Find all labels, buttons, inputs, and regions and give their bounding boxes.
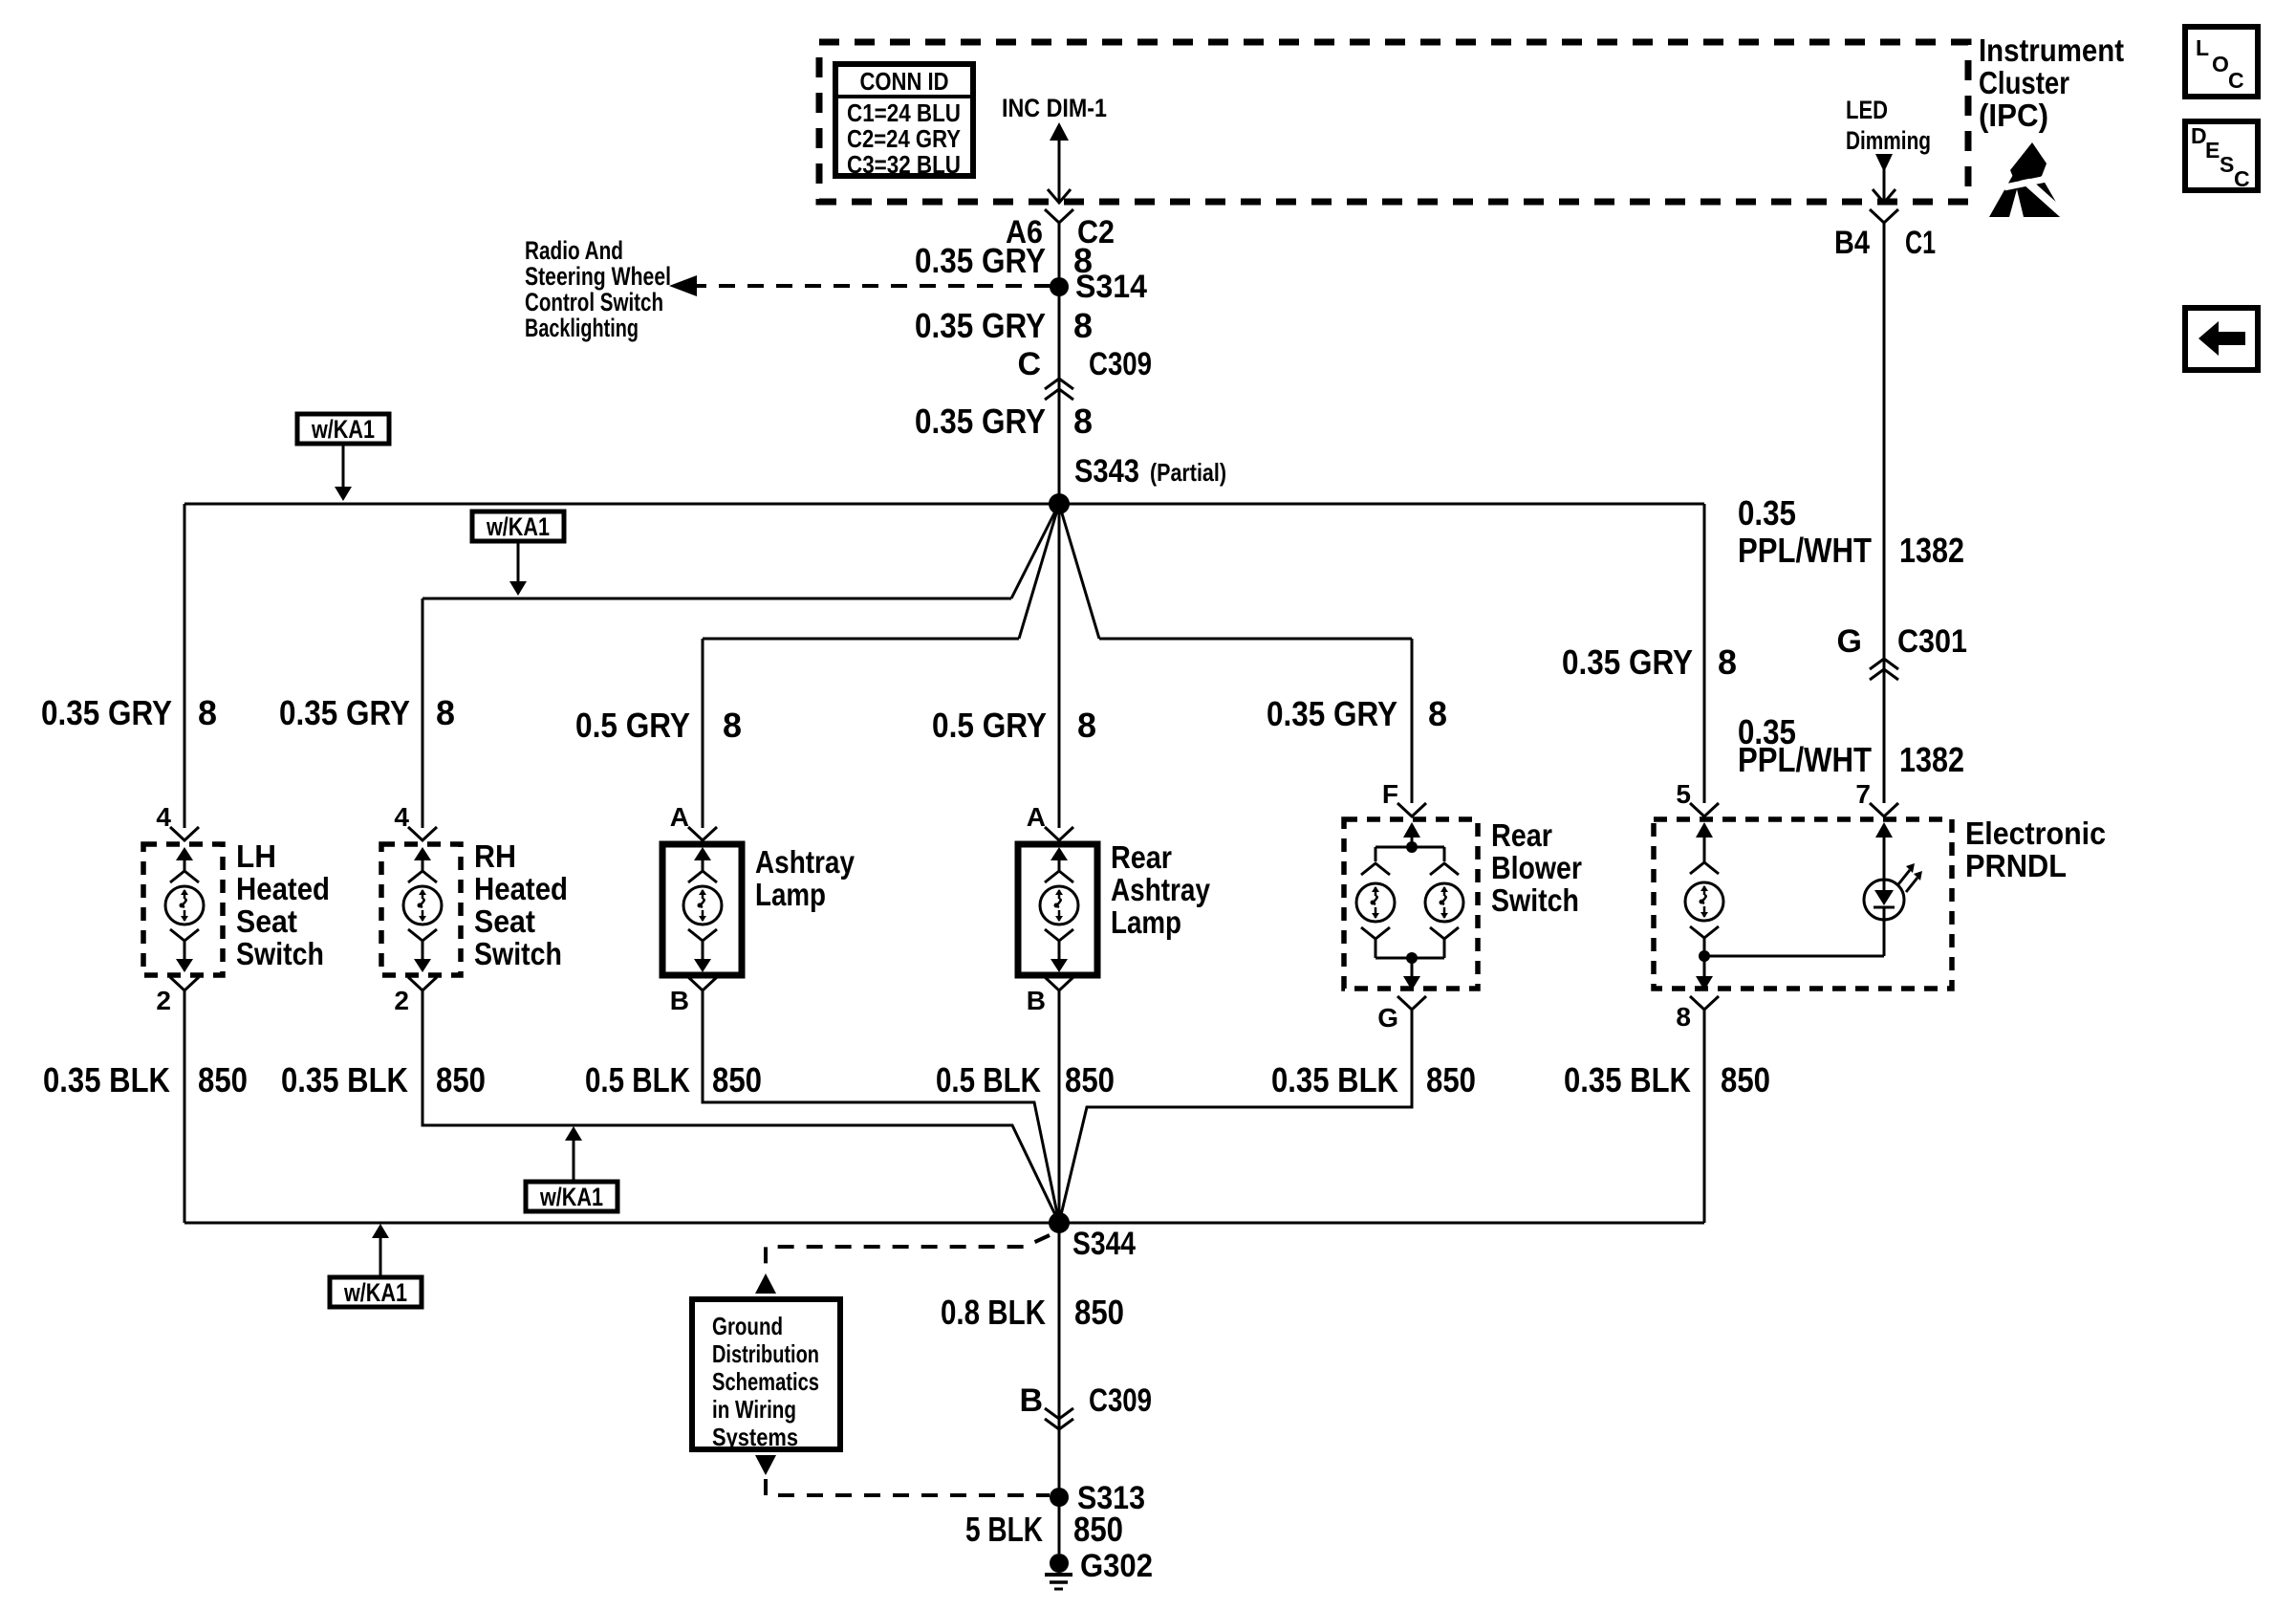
svg-text:850: 850 — [1074, 1293, 1124, 1332]
svg-text:0.35 GRY: 0.35 GRY — [1562, 642, 1693, 682]
w/KA1 note box 2 (to RH feed) — [472, 511, 564, 541]
wire bottom rail S344 — [184, 1222, 1704, 1225]
wire A6 to S343 — [1058, 223, 1061, 504]
svg-text:Seat: Seat — [474, 903, 535, 939]
wire LED dimming — [1883, 168, 1886, 202]
svg-text:0.35 BLK: 0.35 BLK — [43, 1060, 170, 1099]
svg-text:O: O — [2212, 52, 2229, 76]
svg-text:B: B — [670, 986, 689, 1015]
wire S344 to S313 — [1058, 1223, 1061, 1492]
svg-text:0.5 GRY: 0.5 GRY — [932, 706, 1047, 745]
svg-text:LH: LH — [236, 838, 276, 874]
splice S313 — [1050, 1488, 1069, 1507]
wire label 0.35 BLK 850 (blower) — [1271, 1060, 1476, 1099]
pin labels A6 C2 — [1006, 214, 1115, 250]
svg-text:(IPC): (IPC) — [1979, 98, 2048, 133]
svg-text:Distribution: Distribution — [712, 1339, 819, 1368]
wire label 0.35 GRY 8 (above S314) — [915, 241, 1093, 280]
svg-text:4: 4 — [156, 802, 171, 832]
svg-text:C2=24 GRY: C2=24 GRY — [847, 124, 961, 153]
svg-text:Systems: Systems — [712, 1423, 798, 1451]
pin B rear ashtray lamp — [1045, 977, 1073, 990]
wire ashtray ground drop+run — [703, 990, 1059, 1223]
svg-text:Radio And: Radio And — [525, 236, 623, 265]
ESD sensitivity symbol — [1989, 151, 2065, 217]
svg-text:Ashtray: Ashtray — [755, 844, 856, 880]
svg-text:A: A — [1027, 802, 1046, 832]
PRNDL lamp leg — [1696, 822, 1713, 838]
wire S343 branch slant to RH feed — [1011, 504, 1059, 598]
CONN ID table text — [847, 67, 961, 179]
svg-text:8: 8 — [1676, 1002, 1691, 1032]
svg-text:PPL/WHT: PPL/WHT — [1738, 531, 1872, 570]
svg-text:G: G — [1837, 623, 1862, 660]
pin A rear ashtray lamp — [1045, 827, 1073, 840]
svg-text:B4: B4 — [1834, 225, 1870, 261]
svg-text:5: 5 — [1676, 779, 1691, 809]
wire S343 branch slant to ashtray feed — [1019, 504, 1059, 639]
svg-text:C309: C309 — [1089, 346, 1152, 382]
svg-text:CONN ID: CONN ID — [860, 67, 949, 96]
svg-text:RH: RH — [474, 838, 516, 874]
wire PRNDL pin5 feed drop — [1703, 504, 1706, 803]
pin labels C / C309 — [1017, 346, 1152, 382]
wire label 0.35 BLK 850 (LH) — [43, 1060, 248, 1099]
open arrowhead at IPC border (INC DIM-1) — [1048, 189, 1071, 203]
wire S343 branch slant to blower feed — [1059, 504, 1099, 639]
w/KA1 note box 3 (to RH ground run) — [526, 1182, 617, 1211]
wire blower ground drop+run — [1059, 1010, 1412, 1223]
connector pin A6/C2 — [1045, 209, 1073, 223]
svg-text:Heated: Heated — [236, 871, 330, 906]
svg-text:8: 8 — [198, 693, 217, 732]
svg-text:Lamp: Lamp — [1111, 904, 1181, 940]
svg-text:S314: S314 — [1075, 269, 1147, 305]
svg-text:8: 8 — [1428, 694, 1447, 733]
svg-text:850: 850 — [1721, 1060, 1770, 1099]
svg-text:A: A — [670, 802, 689, 832]
svg-text:Switch: Switch — [1491, 882, 1579, 918]
DESC reference box — [2185, 121, 2258, 190]
svg-text:Switch: Switch — [236, 936, 324, 971]
svg-text:C1: C1 — [1905, 225, 1936, 261]
svg-text:0.5 BLK: 0.5 BLK — [585, 1060, 690, 1099]
back navigation arrow box — [2185, 308, 2258, 370]
wire label 0.5 BLK 850 (ashtray) — [585, 1060, 762, 1099]
splice S314 — [1050, 277, 1069, 296]
svg-text:8: 8 — [723, 706, 742, 745]
in-line connector C301 — [1870, 659, 1898, 680]
wire label 0.35 GRY 8 (blower feed) — [1267, 694, 1447, 733]
rear blower switch dashed box — [1344, 819, 1478, 989]
instrument cluster (IPC) dashed outline — [819, 42, 1968, 202]
connector pin B4/C1 — [1870, 209, 1898, 223]
pin 2 LH seat switch — [170, 977, 199, 990]
svg-text:Switch: Switch — [474, 936, 562, 971]
wire label 0.8 BLK 850 — [941, 1293, 1124, 1332]
svg-text:5 BLK: 5 BLK — [965, 1510, 1043, 1549]
splice S344 — [1049, 1212, 1070, 1233]
svg-text:F: F — [1382, 779, 1398, 809]
wire rear ashtray lamp feed drop — [1058, 504, 1061, 828]
wire label 0.35 GRY 8 (S314 to C309) — [915, 306, 1093, 345]
svg-text:1382: 1382 — [1899, 740, 1964, 779]
svg-text:w/KA1: w/KA1 — [343, 1278, 407, 1307]
svg-text:C309: C309 — [1089, 1382, 1152, 1419]
svg-text:Steering Wheel: Steering Wheel — [525, 262, 671, 291]
svg-text:0.35 GRY: 0.35 GRY — [41, 693, 172, 732]
svg-text:850: 850 — [436, 1060, 486, 1099]
svg-text:850: 850 — [1073, 1510, 1123, 1549]
wire top rail S343 — [184, 503, 1704, 506]
dashed reference note box to S313 — [766, 1479, 1050, 1495]
rear ashtray lamp symbol — [1051, 847, 1068, 860]
svg-text:w/KA1: w/KA1 — [311, 415, 375, 444]
CONN ID table box — [835, 64, 973, 176]
svg-text:0.35 GRY: 0.35 GRY — [1267, 694, 1397, 733]
svg-text:Seat: Seat — [236, 903, 297, 939]
ground G302 symbol — [1050, 1554, 1069, 1573]
LH heated seat switch lamp symbol — [176, 847, 193, 860]
svg-text:1382: 1382 — [1899, 531, 1964, 570]
svg-text:B: B — [1027, 986, 1046, 1015]
svg-text:4: 4 — [394, 802, 409, 832]
svg-text:Rear: Rear — [1491, 817, 1552, 853]
pin labels B / C309 (bottom) — [1019, 1382, 1152, 1419]
svg-text:Ashtray: Ashtray — [1111, 872, 1211, 907]
wire label 0.35 GRY 8 (PRNDL pin5 feed) — [1562, 642, 1737, 682]
svg-text:Dimming: Dimming — [1846, 126, 1931, 155]
svg-text:0.5 BLK: 0.5 BLK — [936, 1060, 1041, 1099]
svg-text:Control Switch: Control Switch — [525, 288, 663, 316]
svg-text:850: 850 — [198, 1060, 248, 1099]
wire RH seat switch feed drop — [422, 598, 424, 828]
label Rear Ashtray Lamp — [1111, 839, 1211, 940]
pin 4 RH seat switch — [408, 827, 437, 840]
svg-text:0.8 BLK: 0.8 BLK — [941, 1293, 1046, 1332]
wire PRNDL ground drop — [1703, 1010, 1706, 1223]
RH heated seat switch lamp symbol — [414, 847, 431, 860]
svg-text:w/KA1: w/KA1 — [486, 512, 550, 541]
in-line connector C309 (top) — [1045, 379, 1073, 400]
svg-text:C: C — [2234, 166, 2250, 191]
pin G rear blower switch — [1397, 996, 1426, 1010]
wire LH seat switch feed drop — [184, 504, 186, 828]
label RH Heated Seat Switch — [474, 838, 568, 971]
svg-text:S343: S343 — [1074, 453, 1139, 490]
pin labels B4 C1 — [1834, 225, 1936, 261]
svg-text:2: 2 — [156, 986, 171, 1015]
svg-text:Electronic: Electronic — [1965, 816, 2106, 851]
svg-text:in Wiring: in Wiring — [712, 1395, 796, 1424]
svg-text:Instrument: Instrument — [1979, 33, 2124, 68]
wire label 0.35 GRY 8 (RH feed) — [279, 693, 455, 732]
dashed reference S344 to ground distribution note — [766, 1235, 1050, 1272]
svg-text:2: 2 — [394, 986, 409, 1015]
wire label 5 BLK 850 — [965, 1510, 1123, 1549]
svg-text:Backlighting: Backlighting — [525, 314, 639, 342]
svg-text:0.35: 0.35 — [1738, 493, 1796, 533]
svg-text:Cluster: Cluster — [1979, 65, 2069, 100]
label Electronic PRNDL — [1965, 816, 2106, 883]
note radio and steering wheel control switch backlighting — [525, 236, 671, 342]
PRNDL LED leg — [1704, 955, 1884, 958]
wire label 0.35 PPL/WHT 1382 (lower) — [1738, 712, 1964, 779]
svg-text:INC DIM-1: INC DIM-1 — [1002, 94, 1107, 122]
svg-text:C1=24 BLU: C1=24 BLU — [847, 98, 961, 127]
svg-text:0.35 GRY: 0.35 GRY — [915, 306, 1046, 345]
svg-text:8: 8 — [1073, 306, 1093, 345]
dashed reference to radio backlighting — [690, 284, 1059, 288]
svg-text:C301: C301 — [1897, 623, 1967, 660]
svg-text:850: 850 — [712, 1060, 762, 1099]
pin F rear blower switch — [1397, 803, 1426, 816]
wire label 0.5 GRY 8 (ashtray feed) — [575, 706, 742, 745]
svg-text:0.5 GRY: 0.5 GRY — [575, 706, 690, 745]
svg-text:(Partial): (Partial) — [1150, 458, 1226, 487]
wire label 0.35 GRY 8 (C309 to S343) — [915, 402, 1093, 441]
electronic PRNDL dashed box — [1654, 819, 1952, 989]
svg-text:0.35 GRY: 0.35 GRY — [279, 693, 410, 732]
svg-text:E: E — [2205, 138, 2220, 163]
RH heated seat switch dashed box — [381, 844, 461, 975]
wire INC DIM-1 inside IPC — [1058, 140, 1061, 202]
pin 2 RH seat switch — [408, 977, 437, 990]
wire blower switch feed drop — [1411, 639, 1414, 803]
ground distribution note box — [692, 1299, 840, 1449]
svg-text:0.35 BLK: 0.35 BLK — [1564, 1060, 1691, 1099]
in-line connector C309 (bottom) — [1045, 1408, 1073, 1429]
arrowhead left (radio reference) — [669, 275, 697, 296]
svg-text:PRNDL: PRNDL — [1965, 848, 2067, 883]
wire label 0.5 GRY 8 (rear ashtray feed) — [932, 706, 1096, 745]
svg-text:Lamp: Lamp — [755, 877, 826, 912]
pin A ashtray lamp — [688, 827, 717, 840]
wire label 0.35 GRY 8 (LH feed) — [41, 693, 217, 732]
svg-text:Blower: Blower — [1491, 850, 1582, 885]
rear ashtray lamp box — [1018, 844, 1097, 975]
label LED Dimming — [1846, 96, 1931, 155]
svg-text:Schematics: Schematics — [712, 1367, 819, 1396]
svg-text:C: C — [1017, 346, 1041, 382]
svg-text:L: L — [2196, 35, 2209, 60]
svg-text:8: 8 — [1718, 642, 1737, 682]
wire blower feed horizontal — [1099, 638, 1412, 641]
wire label 0.35 BLK 850 (RH) — [281, 1060, 486, 1099]
ashtray lamp box — [662, 844, 742, 975]
pin 5 PRNDL — [1690, 803, 1719, 816]
w/KA1 note box 1 (to S343 rail) — [297, 414, 389, 444]
wire S313 to G302 — [1058, 1502, 1061, 1554]
LH heated seat switch dashed box — [143, 844, 223, 975]
wire B4 to PRNDL pin 7 — [1883, 223, 1886, 803]
svg-text:w/KA1: w/KA1 — [539, 1183, 603, 1211]
svg-text:B: B — [1019, 1382, 1043, 1419]
svg-text:8: 8 — [436, 693, 455, 732]
svg-text:S: S — [2220, 152, 2234, 177]
wire label 0.35 PPL/WHT 1382 (upper) — [1738, 493, 1964, 570]
splice S343 — [1049, 493, 1070, 514]
svg-text:PPL/WHT: PPL/WHT — [1738, 740, 1872, 779]
wire label 0.5 BLK 850 (rear ashtray) — [936, 1060, 1115, 1099]
reference arrowhead up — [755, 1273, 776, 1294]
svg-text:Rear: Rear — [1111, 839, 1172, 875]
svg-text:8: 8 — [1073, 402, 1093, 441]
pin 7 PRNDL — [1870, 803, 1898, 816]
open arrowhead at IPC border (LED dimming) — [1873, 189, 1895, 203]
pin 4 LH seat switch — [170, 827, 199, 840]
arrowhead up INC DIM-1 — [1050, 122, 1069, 141]
label Rear Blower Switch — [1491, 817, 1582, 918]
svg-text:G302: G302 — [1080, 1548, 1153, 1584]
wire LH ground drop — [184, 990, 186, 1223]
wire ashtray lamp feed drop — [702, 639, 704, 828]
pin 8 PRNDL — [1690, 996, 1719, 1010]
ashtray lamp symbol — [694, 847, 711, 860]
svg-text:8: 8 — [1077, 706, 1096, 745]
wire ashtray feed horizontal — [703, 638, 1019, 641]
svg-text:0.35 BLK: 0.35 BLK — [1271, 1060, 1398, 1099]
svg-text:7: 7 — [1855, 779, 1871, 809]
svg-text:C: C — [2228, 68, 2244, 93]
svg-text:Ground: Ground — [712, 1312, 783, 1340]
svg-text:S344: S344 — [1072, 1226, 1136, 1262]
svg-text:850: 850 — [1426, 1060, 1476, 1099]
rear blower switch internals — [1403, 822, 1420, 838]
wire RH ground drop+run — [422, 990, 1059, 1223]
pin B ashtray lamp — [688, 977, 717, 990]
svg-text:0.35 GRY: 0.35 GRY — [915, 241, 1046, 280]
IPC label text — [1979, 33, 2124, 133]
label LH Heated Seat Switch — [236, 838, 330, 971]
pin labels G / C301 — [1837, 623, 1967, 660]
svg-text:C3=32 BLU: C3=32 BLU — [847, 150, 961, 179]
wire RH feed horizontal — [422, 598, 1011, 600]
reference arrowhead down — [755, 1455, 776, 1475]
svg-text:Heated: Heated — [474, 871, 568, 906]
wire label 0.35 BLK 850 (PRNDL) — [1564, 1060, 1770, 1099]
svg-text:G: G — [1377, 1003, 1398, 1033]
LED dimming filled arrow down — [1875, 154, 1893, 172]
svg-text:0.35 BLK: 0.35 BLK — [281, 1060, 408, 1099]
svg-text:0.35 GRY: 0.35 GRY — [915, 402, 1046, 441]
wire rear ashtray ground drop — [1058, 990, 1061, 1223]
w/KA1 note box 4 (to S344 rail) — [330, 1277, 422, 1307]
svg-text:850: 850 — [1065, 1060, 1115, 1099]
LOC reference box — [2185, 27, 2258, 97]
label Ashtray Lamp — [755, 844, 856, 912]
svg-text:LED: LED — [1846, 96, 1888, 124]
